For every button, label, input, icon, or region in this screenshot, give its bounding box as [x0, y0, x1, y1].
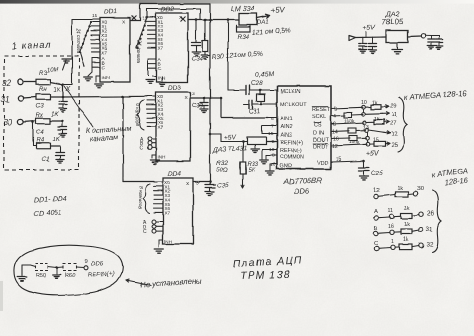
junction to DD4 branch — [122, 95, 125, 98]
wire node X to row 31 — [62, 85, 64, 98]
svg-text:DD3: DD3 — [168, 85, 182, 92]
DD1 pins A B C — [92, 57, 100, 59]
svg-text:INH: INH — [102, 75, 110, 80]
wire channel branch down to DD4 — [122, 97, 124, 182]
crystal network cap C28 — [228, 89, 245, 91]
svg-text:REFIN(+): REFIN(+) — [88, 271, 115, 279]
svg-text:1: 1 — [391, 239, 394, 245]
svg-text:C34: C34 — [191, 56, 203, 63]
multiplexer DD2 CD4051 body — [156, 13, 188, 82]
DD3 pin X5 — [147, 117, 156, 119]
brace 8 inputs DD4 — [144, 184, 151, 213]
svg-text:6: 6 — [271, 116, 274, 122]
svg-text:C30: C30 — [192, 104, 204, 110]
svg-text:CD 4051: CD 4051 — [34, 209, 62, 218]
DD4 pin X1 — [154, 185, 163, 187]
svg-text:15: 15 — [92, 14, 98, 20]
capacitor C25 — [359, 167, 369, 169]
regulator DA2 78L05 body — [386, 31, 408, 43]
DD4 pin X7 — [154, 211, 163, 213]
svg-text:X7: X7 — [158, 124, 164, 129]
svg-text:DD6: DD6 — [91, 260, 104, 268]
svg-text:INH: INH — [165, 239, 173, 244]
wire from terminal 32 — [23, 81, 36, 83]
svg-text:COMMON: COMMON — [280, 155, 304, 161]
svg-text:1K: 1K — [52, 137, 60, 143]
wire channel signal to DD3 X0 — [63, 95, 148, 98]
brace 8 inputs DD3 — [138, 100, 145, 130]
svg-text:RESET: RESET — [312, 107, 331, 113]
svg-text:+5V: +5V — [366, 149, 380, 158]
capacitor C35 on DD4 output — [209, 182, 211, 185]
reference DA3 TL431 body — [247, 137, 266, 145]
ground REFIN-/COMMON — [261, 150, 263, 160]
resistor R60 (not installed) — [63, 264, 76, 271]
tie wire between rows — [363, 109, 365, 113]
DD1 pin X3 — [91, 34, 100, 36]
DD3 pin X4 — [147, 112, 156, 114]
svg-text:MCLKIN: MCLKIN — [280, 89, 301, 95]
terminal to DD6 REFIN(+) pin 9 — [84, 266, 88, 270]
DD1 pin X1 — [91, 25, 100, 27]
ground under TL431 — [254, 145, 256, 149]
svg-text:25: 25 — [391, 143, 398, 149]
DD2 pin X0 — [147, 16, 156, 18]
DD4 pin X3 — [154, 194, 163, 196]
annotation leader to other channels — [64, 86, 93, 127]
svg-text:Rн: Rн — [39, 87, 47, 93]
svg-text:31: 31 — [426, 226, 434, 233]
svg-text:50Ω: 50Ω — [216, 167, 228, 174]
DD4 pin X5 — [154, 203, 163, 205]
DD1 ladder diagonal wire — [80, 22, 91, 52]
output capacitor 1 — [425, 35, 431, 37]
DD1 pin X7 — [91, 51, 100, 53]
output wire — [408, 35, 421, 38]
input wire — [356, 36, 387, 39]
svg-text:R60: R60 — [65, 273, 75, 279]
svg-text:AIN1: AIN1 — [280, 117, 292, 123]
svg-text:R50: R50 — [36, 273, 46, 279]
svg-text:3: 3 — [196, 180, 199, 186]
DD4 pin X0 — [154, 181, 163, 183]
inner wire loop above DD2 — [146, 9, 148, 17]
wire to DD1 top — [72, 19, 100, 21]
wire from bus to crystal — [227, 20, 229, 90]
svg-text:11: 11 — [388, 209, 394, 215]
DD1 input ladder junction dots — [90, 21, 92, 23]
DD2 pins A B C — [148, 58, 156, 60]
svg-text:C: C — [143, 230, 147, 236]
78L05 ground pin — [396, 43, 398, 49]
multiplexer DD1 CD4051 body — [100, 18, 130, 82]
svg-text:32: 32 — [426, 241, 434, 248]
DD2 ABC ground — [146, 79, 155, 81]
arrow ground under R33 — [242, 174, 244, 188]
svg-text:24 канала: 24 канала — [135, 39, 141, 63]
svg-text:3: 3 — [192, 91, 195, 97]
DD3 pin X2 — [147, 104, 156, 106]
vertical bus wire right of DD2 — [209, 20, 211, 182]
ground left in blob — [21, 265, 23, 276]
DD2 pin X5 — [147, 38, 156, 40]
ADC DD6 AD7706 body — [277, 86, 331, 169]
resistor R4 1K — [36, 143, 50, 149]
svg-text:каналам: каналам — [90, 133, 119, 143]
output capacitor 2 — [431, 35, 439, 37]
multiplexer DD3 CD4051 body — [156, 92, 190, 161]
svg-text:31: 31 — [1, 95, 10, 104]
wire Rx to junction — [50, 120, 63, 122]
wire DD3 X to AIN1 — [220, 98, 222, 118]
DD2 input ladder dots — [146, 16, 148, 18]
svg-text:1k: 1k — [404, 206, 410, 212]
wire DD1 X up over to DD2 region — [139, 4, 141, 21]
svg-text:+5V: +5V — [224, 134, 238, 142]
input capacitor 2 — [372, 37, 374, 43]
svg-text:C35: C35 — [217, 182, 229, 189]
svg-text:C3: C3 — [36, 104, 44, 110]
DD3 pin X0 — [147, 95, 156, 97]
svg-text:6: 6 — [333, 122, 336, 128]
svg-text:С28: С28 — [251, 80, 263, 87]
DD2 INH ground — [161, 77, 163, 82]
DD4 pin X6 — [154, 207, 163, 209]
DD2 ladder diagonal — [136, 17, 147, 47]
DD3 pin X7 — [147, 125, 156, 127]
wire R3 to node X — [50, 82, 61, 84]
series cap C31 on MCLKOUT — [244, 104, 249, 106]
DD4 pin X2 — [154, 190, 163, 192]
DD2 pin X3 — [147, 29, 156, 31]
svg-text:AIN3: AIN3 — [280, 133, 292, 139]
svg-text:8 каналов: 8 каналов — [137, 186, 143, 209]
svg-text:Rx: Rx — [36, 113, 44, 119]
wire from terminal 30 — [23, 121, 36, 122]
svg-text:1k: 1k — [404, 222, 410, 228]
svg-text:DA1: DA1 — [257, 19, 269, 26]
svg-text:1K: 1K — [51, 112, 59, 118]
DD1 pin X6 — [91, 47, 100, 49]
DD2 pin X4 — [147, 33, 156, 35]
junction and ground in blob — [56, 266, 59, 269]
svg-text:REFIN(-): REFIN(-) — [280, 148, 302, 154]
svg-text:DD6: DD6 — [294, 186, 310, 196]
svg-text:1k: 1k — [372, 101, 378, 107]
svg-text:0,45М: 0,45М — [255, 71, 274, 79]
svg-text:INH: INH — [158, 76, 166, 81]
resistor Rx 1K — [36, 118, 50, 124]
svg-text:1 канал: 1 канал — [12, 40, 52, 51]
svg-text:27: 27 — [390, 121, 397, 127]
svg-text:C: C — [158, 66, 162, 72]
svg-text:7: 7 — [271, 124, 274, 130]
wire Rн to junction — [50, 96, 63, 98]
svg-text:AIN2: AIN2 — [280, 125, 292, 131]
DD1 ground under ABC — [88, 72, 92, 76]
svg-text:INH: INH — [158, 155, 166, 160]
svg-text:LM 334: LM 334 — [231, 4, 255, 13]
svg-text:X7: X7 — [158, 45, 164, 50]
DD4 pin X4 — [154, 198, 163, 200]
svg-text:11: 11 — [391, 113, 397, 119]
svg-text:X: X — [65, 85, 71, 93]
DD3 pin X6 — [147, 121, 156, 123]
DD1 INH ground — [95, 83, 104, 85]
wire +5V node to TL431 — [220, 134, 222, 142]
svg-text:8 каналов: 8 каналов — [134, 103, 140, 126]
svg-text:C: C — [140, 145, 144, 151]
resistor R50 (not installed) — [35, 264, 48, 271]
svg-text:C1: C1 — [42, 157, 50, 163]
svg-text:DD1: DD1 — [104, 9, 118, 16]
svg-text:26: 26 — [427, 210, 435, 217]
DD2 pin X1 — [147, 20, 156, 22]
DD1 pin X4 — [91, 38, 100, 40]
svg-text:3: 3 — [131, 15, 134, 21]
svg-text:MCLKOUT: MCLKOUT — [280, 102, 307, 108]
wire TL431 to REFIN+ — [266, 141, 277, 143]
wire terminal30 down to R4 row — [32, 122, 34, 146]
svg-text:24 сигнала: 24 сигнала — [75, 27, 81, 54]
svg-text:R34: R34 — [237, 34, 249, 41]
svg-text:29: 29 — [390, 104, 397, 110]
svg-text:R4: R4 — [36, 138, 44, 144]
svg-text:14: 14 — [332, 130, 338, 136]
DD1 pin X0 — [91, 21, 100, 23]
svg-text:12: 12 — [373, 188, 379, 194]
input capacitor C — [362, 37, 364, 43]
channel dashed enclosure — [4, 56, 79, 170]
DD3 pin X1 — [147, 99, 156, 101]
svg-text:A: A — [374, 209, 378, 215]
+5V output arrow — [257, 16, 270, 19]
DD2 pin X2 — [147, 25, 156, 27]
wire bus up from node X — [63, 84, 73, 86]
resistor R33 5K — [242, 140, 245, 143]
svg-text:12: 12 — [332, 144, 338, 150]
shield ground top of box — [63, 60, 67, 70]
svg-text:9: 9 — [272, 139, 275, 145]
svg-text:30: 30 — [417, 186, 424, 192]
multiplexer DD4 CD4051 body — [163, 178, 193, 244]
svg-text:16: 16 — [270, 162, 276, 168]
output terminal — [421, 34, 425, 38]
resistor Rн 1K — [36, 94, 50, 100]
DD2 pin X6 — [147, 42, 156, 44]
crystal ZQ1 — [257, 94, 265, 101]
svg-text:VDD: VDD — [317, 161, 329, 167]
svg-text:C: C — [102, 65, 106, 71]
wire DD2 X to LM334 — [188, 19, 239, 21]
svg-text:R32: R32 — [216, 160, 228, 167]
svg-text:32: 32 — [2, 79, 12, 88]
svg-text:+5V: +5V — [363, 24, 377, 32]
svg-text:1K: 1K — [53, 88, 61, 94]
input arrow terminal — [349, 36, 356, 41]
DD3 pin X3 — [147, 108, 156, 110]
svg-text:AD7706BR: AD7706BR — [283, 176, 323, 186]
DD1 pin X5 — [91, 43, 100, 45]
svg-text:1k: 1k — [403, 237, 409, 243]
svg-text:C4: C4 — [36, 130, 44, 136]
svg-text:16: 16 — [388, 224, 394, 230]
svg-text:С31: С31 — [249, 108, 261, 116]
svg-text:SCKL: SCKL — [312, 115, 326, 121]
svg-text:10: 10 — [361, 100, 367, 106]
node X junction — [61, 83, 64, 86]
svg-text:4: 4 — [333, 114, 336, 120]
wire R4 to C5 — [50, 145, 60, 147]
branch to DA3 +5V — [210, 133, 221, 135]
svg-text:DD2: DD2 — [161, 6, 175, 13]
svg-text:DD1- DD4: DD1- DD4 — [34, 195, 67, 204]
svg-text:12: 12 — [391, 132, 398, 138]
svg-text:DOUT: DOUT — [313, 138, 329, 144]
svg-text:13: 13 — [363, 125, 369, 131]
wire AIN2 AIN3 stub — [261, 126, 263, 134]
svg-text:ТРМ 138: ТРМ 138 — [240, 269, 291, 282]
svg-text:9: 9 — [84, 259, 87, 265]
DD1 pin X2 — [91, 30, 100, 32]
resistor R34 feedback — [235, 25, 237, 30]
svg-text:REFIN(+): REFIN(+) — [280, 140, 303, 146]
svg-text:С25: С25 — [371, 170, 383, 177]
svg-text:5K: 5K — [248, 168, 256, 174]
svg-text:16: 16 — [333, 137, 339, 143]
brace address lines — [432, 190, 441, 252]
svg-text:X7: X7 — [165, 210, 171, 215]
capacitor C34 filter — [195, 20, 197, 43]
svg-text:+5V: +5V — [271, 5, 286, 15]
svg-text:CS: CS — [314, 123, 322, 129]
svg-text:DD4: DD4 — [168, 171, 182, 178]
DD2 pin X7 — [147, 46, 156, 48]
svg-text:D IN: D IN — [313, 131, 324, 137]
svg-text:1k: 1k — [397, 186, 403, 192]
wire from terminal 31 — [24, 97, 37, 98]
brace to ATMEGA — [398, 97, 407, 152]
svg-text:X7: X7 — [102, 50, 108, 55]
blob outline (not installed parts) — [14, 245, 123, 295]
regulator LM334 DA1 body — [239, 13, 257, 25]
capacitor C30 on DD3 output — [203, 97, 206, 100]
svg-text:10M: 10M — [47, 67, 59, 74]
svg-text:5: 5 — [334, 107, 337, 113]
resistor R3 — [36, 79, 50, 85]
svg-text:30: 30 — [3, 118, 13, 127]
svg-text:78L05: 78L05 — [382, 17, 404, 27]
svg-text:GND: GND — [280, 164, 292, 170]
svg-text:DRDY: DRDY — [313, 144, 329, 150]
resistor R31 filter — [204, 20, 206, 42]
